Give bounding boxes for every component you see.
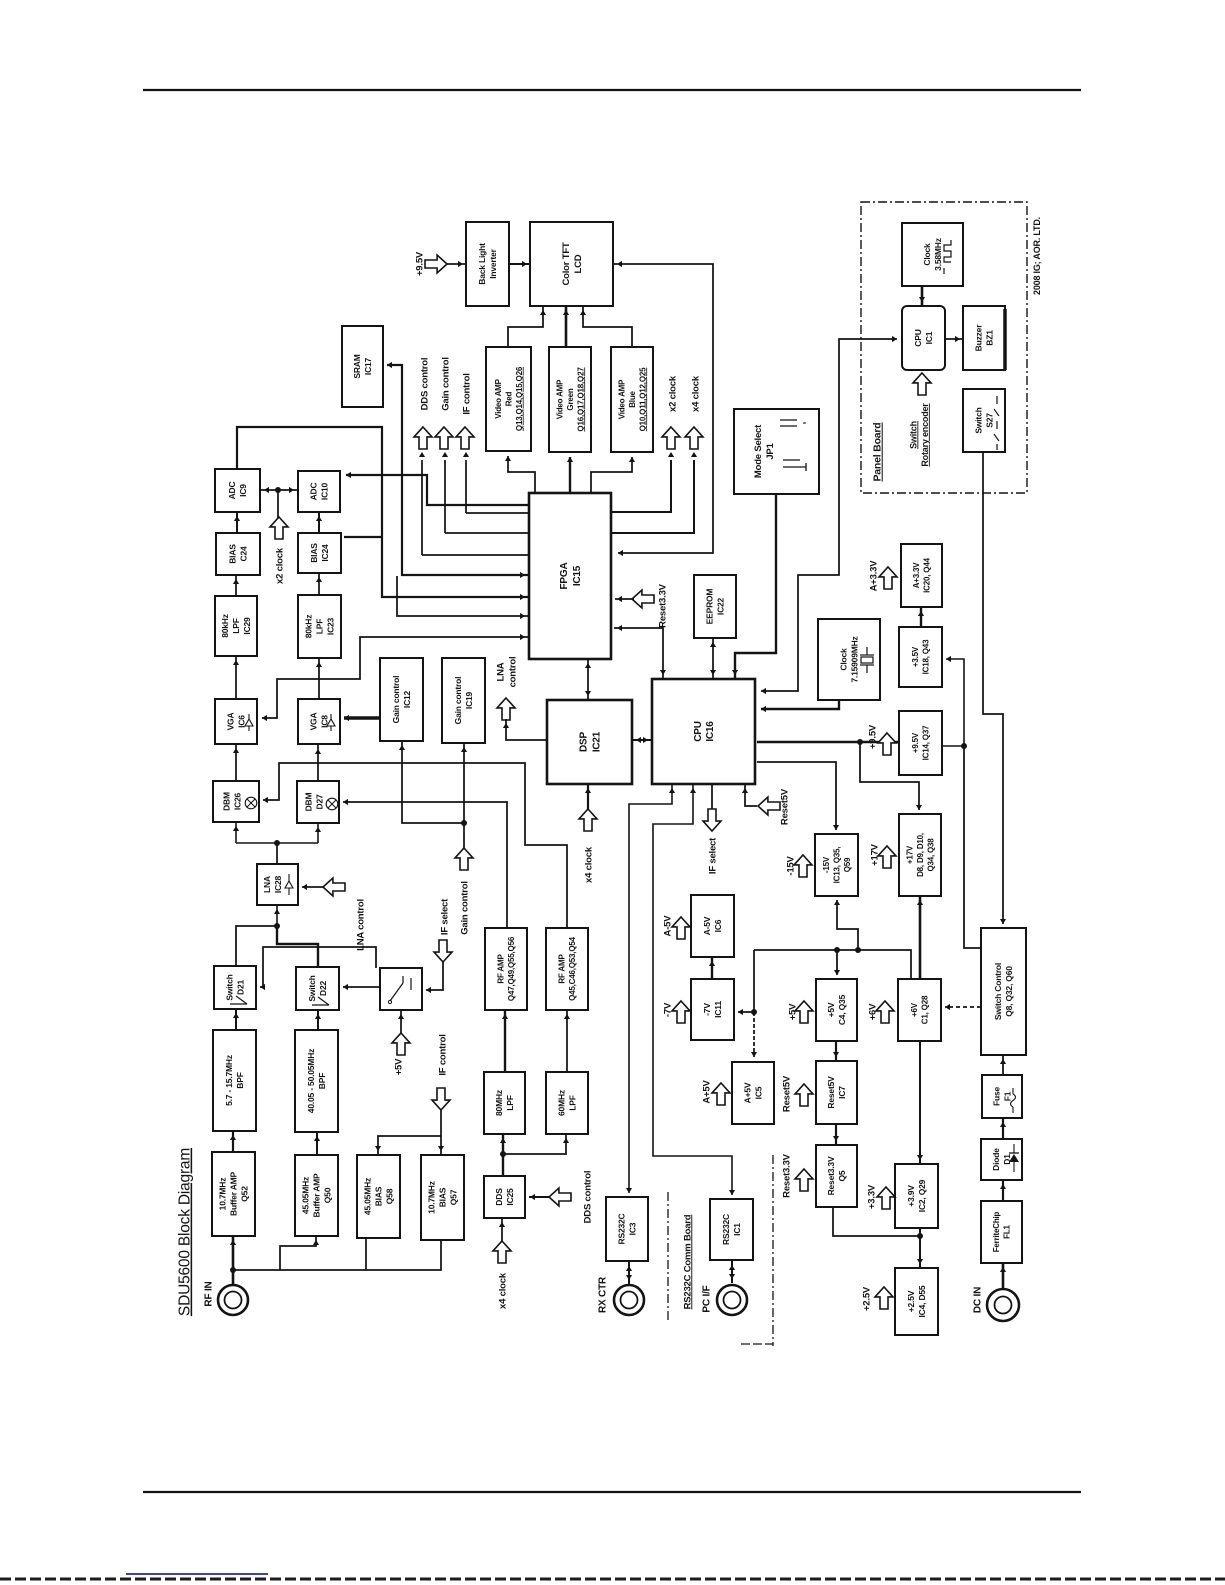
- connector PC I/F: [717, 1285, 747, 1315]
- arrowhead x4 into DDS: [499, 1222, 505, 1227]
- bias Q58: [357, 1155, 400, 1238]
- arrowhead reset33: [617, 596, 622, 602]
- svg-text:SDU5600 Block Diagram: SDU5600 Block Diagram: [177, 1148, 194, 1316]
- wire switch ctl to D22: [343, 986, 380, 988]
- wire RF IN to buffer amp Q52: [232, 1236, 235, 1284]
- open arrow switch to CPU: [913, 373, 931, 395]
- svg-text:CPU: CPU: [693, 721, 704, 742]
- label DDS control dds: [582, 1171, 593, 1224]
- open arrow DDS control: [549, 1188, 571, 1206]
- wire DSP to LNA control: [506, 719, 547, 740]
- wire to -7V: [738, 1011, 754, 1013]
- wire ADC9 bus: [237, 427, 529, 597]
- +9.5V IC14 Q37: [899, 711, 942, 775]
- wire CPU 9.5V bus: [757, 741, 899, 744]
- label RF IN: [204, 1281, 215, 1306]
- label Gain control lower: [459, 881, 470, 935]
- arrowheads into DBM bottoms: [233, 826, 239, 831]
- wire Gain control: [445, 532, 529, 534]
- wire diode to fuse: [1002, 1118, 1004, 1139]
- mode select JP1: [734, 409, 819, 494]
- gain control IC19: [442, 658, 485, 743]
- arrowhead fuse swctl: [1000, 1059, 1006, 1064]
- RS232C IC1: [710, 1199, 753, 1260]
- svg-text:Q58: Q58: [385, 1188, 395, 1204]
- wire IF control branch to Q58: [378, 1136, 441, 1155]
- wire LNA to DBM junction: [276, 843, 278, 864]
- svg-text:VGA: VGA: [226, 713, 236, 731]
- wire EEPROM to CPU: [712, 638, 714, 679]
- buzzer BZ1: [963, 306, 1005, 370]
- svg-text:IF select: IF select: [439, 898, 450, 935]
- LPF 60MHz: [546, 1072, 588, 1134]
- open arrow Gain control top: [435, 427, 453, 449]
- svg-text:IC12: IC12: [402, 690, 412, 708]
- arrowhead into 80M LPF: [500, 1138, 506, 1143]
- wire junction to DBM IC26: [235, 822, 237, 843]
- label 2008 IG AOR LTD: [1032, 217, 1042, 295]
- arrowhead into LCD left: [522, 261, 527, 267]
- junction 3.3V rail: [917, 1233, 923, 1239]
- svg-text:IC18, Q43: IC18, Q43: [922, 639, 931, 674]
- wire Q52 to BPF1: [232, 1131, 234, 1152]
- open arrow IF control: [432, 1088, 450, 1110]
- svg-text:BPF: BPF: [235, 1072, 245, 1088]
- open arrow +2.5V: [875, 1287, 893, 1309]
- svg-text:LPF: LPF: [505, 1095, 515, 1110]
- wire junction to DBM D27: [317, 823, 319, 843]
- +2.5V IC4 D55: [895, 1268, 938, 1335]
- svg-text:+17V: +17V: [905, 845, 914, 864]
- svg-text:IC22: IC22: [716, 597, 726, 615]
- svg-text:ADC: ADC: [309, 483, 319, 501]
- svg-text:FL1: FL1: [1003, 1224, 1012, 1238]
- arrowhead lna ctl: [503, 723, 509, 728]
- switch D22: [296, 967, 339, 1010]
- svg-text:IC17: IC17: [363, 357, 373, 375]
- arrowhead ferrite diode: [1000, 1184, 1006, 1189]
- arrowhead into RF amp2: [564, 1014, 570, 1019]
- wire CPU to panel: [761, 339, 897, 691]
- wire BIAS C24 to ADC IC9: [236, 512, 238, 533]
- buffer amp Q50: [295, 1155, 338, 1236]
- wire DDS control: [422, 554, 529, 556]
- CPU IC16: [652, 679, 755, 784]
- svg-text:+5V: +5V: [826, 1002, 836, 1017]
- svg-text:Switch Control: Switch Control: [993, 963, 1003, 1020]
- VGA IC8: [298, 699, 340, 744]
- svg-text:Rotary encoder: Rotary encoder: [920, 403, 930, 467]
- svg-text:3.58MHz: 3.58MHz: [933, 238, 943, 271]
- wire 9.5V right rail: [943, 659, 964, 746]
- svg-text:RS232C Comm Board: RS232C Comm Board: [682, 1214, 693, 1309]
- arrowhead clock panel cpu: [919, 297, 925, 302]
- arrowhead into VGA IC6: [233, 748, 239, 753]
- open arrow IF select cpu: [703, 809, 721, 831]
- junction x2 clock: [275, 487, 281, 493]
- arrowhead into BIAS C24: [233, 579, 239, 584]
- svg-text:A-5V: A-5V: [702, 916, 712, 935]
- svg-text:IF control: IF control: [461, 373, 472, 414]
- svg-text:A-5V: A-5V: [662, 915, 673, 937]
- arrowhead into BPF1: [230, 1135, 236, 1140]
- junction DDS out: [500, 1151, 506, 1157]
- label +9.5V: [867, 724, 878, 749]
- wire IF control v: [465, 460, 467, 513]
- arrowheads IC1 pcif: [729, 1265, 735, 1270]
- wire DDS control v: [421, 460, 423, 555]
- svg-text:+6V: +6V: [910, 1002, 919, 1017]
- wire FPGA to green amp: [569, 457, 571, 493]
- IF select switch: [380, 968, 422, 1010]
- wire gain branch to IC12: [402, 741, 464, 823]
- svg-text:45.05MHz: 45.05MHz: [301, 1177, 311, 1214]
- wire BPF1 to switch D21: [235, 1009, 237, 1030]
- wire 6V to 3.9V: [919, 1041, 921, 1164]
- arrowhead into LPF IC23: [316, 662, 322, 667]
- svg-text:DDS control: DDS control: [419, 358, 430, 411]
- arrowheads LCD FPGA wire: [617, 261, 622, 267]
- svg-text:Q5: Q5: [837, 1170, 847, 1181]
- arrowhead into -7V right: [738, 1009, 743, 1015]
- arrowhead into D22 right: [343, 984, 348, 990]
- arrowhead into LNA right: [302, 884, 307, 890]
- BIAS IC24: [298, 533, 341, 573]
- svg-text:7.15909MHz: 7.15909MHz: [850, 636, 860, 682]
- switch control Q8 Q32 Q60: [981, 928, 1026, 1055]
- ADC IC10: [298, 471, 340, 512]
- wire ADC9 bus branch: [344, 536, 382, 538]
- arrowhead into -15V top: [833, 825, 839, 830]
- svg-text:Switch: Switch: [908, 421, 918, 449]
- open arrow +5V power: [795, 1001, 813, 1023]
- svg-text:F1: F1: [1003, 1091, 1013, 1101]
- arrowhead into A-5V bottom: [709, 961, 715, 966]
- svg-text:x2 clock: x2 clock: [667, 375, 678, 412]
- wire 5V rail: [754, 950, 911, 979]
- svg-text:IC26: IC26: [233, 792, 243, 810]
- wire BPF2 to switch D22: [317, 1010, 319, 1030]
- svg-text:SRAM: SRAM: [352, 354, 362, 378]
- svg-text:80kHz: 80kHz: [220, 614, 230, 638]
- arrowhead into IC12: [399, 745, 405, 750]
- svg-text:IC16: IC16: [705, 721, 716, 742]
- wire -7V to A-5V: [711, 957, 713, 979]
- svg-text:x4 clock: x4 clock: [583, 846, 594, 883]
- wire swctl to 6V: [945, 1006, 981, 1008]
- label Gain control top: [440, 357, 451, 411]
- junction below LNA: [274, 923, 280, 929]
- svg-text:x2 clock: x2 clock: [274, 547, 285, 584]
- +6V C1 Q28: [898, 979, 941, 1041]
- svg-text:Buffer AMP: Buffer AMP: [229, 1171, 239, 1215]
- wire ADC10 bus: [346, 475, 529, 505]
- svg-text:x4 clock: x4 clock: [497, 1272, 508, 1309]
- arrowhead into 6V right: [945, 1004, 950, 1010]
- open arrow A-5V: [672, 917, 690, 939]
- wire IF select to box: [426, 962, 443, 990]
- svg-text:IC19: IC19: [464, 691, 474, 709]
- svg-text:VGA: VGA: [309, 713, 319, 731]
- svg-text:Reset3.3V: Reset3.3V: [781, 1153, 792, 1197]
- svg-text:DDS control: DDS control: [582, 1171, 593, 1224]
- wire branch to Q50 bottom: [280, 1236, 316, 1270]
- svg-text:BPF: BPF: [317, 1073, 327, 1089]
- open arrow Reset5V: [795, 1084, 813, 1106]
- wire reset33 bottom: [833, 1207, 920, 1236]
- svg-text:IC2, Q29: IC2, Q29: [917, 1179, 927, 1212]
- wire 5V to reset5V: [835, 1041, 837, 1061]
- FPGA IC15: [529, 493, 611, 659]
- arrowheads cpu ic3: [669, 788, 675, 793]
- svg-text:D27: D27: [315, 794, 325, 809]
- wire rail to +5V box: [836, 950, 838, 975]
- arrowhead into ADC IC9: [234, 516, 240, 521]
- arrowhead into D21: [233, 1013, 239, 1018]
- svg-text:Gain control: Gain control: [453, 677, 463, 725]
- clock 3.58MHz: [902, 223, 963, 286]
- DDS IC25: [484, 1176, 525, 1218]
- svg-text:Q34, Q38: Q34, Q38: [926, 838, 935, 872]
- bandpass filter BPF2: [295, 1030, 338, 1132]
- LPF 80MHz: [484, 1072, 525, 1134]
- svg-text:+9.5V: +9.5V: [867, 724, 878, 749]
- label x2 clock right: [667, 375, 678, 412]
- wire S27 to switch control: [983, 452, 1003, 924]
- arrowheads FPGA DSP: [585, 663, 591, 668]
- arrowhead reset5v cpu: [742, 788, 748, 793]
- arrowhead into 2.5V: [917, 1259, 923, 1264]
- svg-text:RF IN: RF IN: [204, 1281, 215, 1306]
- svg-text:Green: Green: [566, 388, 575, 410]
- open arrow -15V: [794, 855, 812, 877]
- RF AMP Q45: [546, 928, 588, 1010]
- svg-text:Video AMP: Video AMP: [555, 379, 564, 419]
- svg-text:IC1: IC1: [732, 1223, 742, 1236]
- svg-text:IC13, Q35,: IC13, Q35,: [832, 847, 841, 884]
- label +17V: [869, 843, 880, 866]
- A+5V IC5: [732, 1062, 774, 1124]
- svg-text:Switch: Switch: [974, 407, 984, 433]
- arrowhead into blue amp: [629, 457, 635, 462]
- wire DBM D27 LO: [343, 802, 507, 928]
- wire FPGA to red amp: [508, 456, 535, 493]
- wire FPGA to SRAM: [387, 365, 529, 575]
- arrowhead into reset33: [833, 1136, 839, 1141]
- wire +5V to switch box: [400, 1010, 402, 1034]
- svg-text:2008 IG; AOR. LTD.: 2008 IG; AOR. LTD.: [1032, 217, 1042, 295]
- wire green amp to LCD: [565, 306, 568, 347]
- arrowhead +5V into box: [398, 1014, 404, 1019]
- svg-text:A+3.3V: A+3.3V: [868, 560, 879, 592]
- wire FPGA w2: [397, 576, 529, 616]
- arrowhead ADC9 bus into FPGA: [520, 594, 525, 600]
- open arrow Reset5V cpu: [758, 797, 780, 815]
- svg-text:Reset5V: Reset5V: [781, 1075, 792, 1112]
- wire VGA IC6 to LPF IC29: [235, 656, 237, 699]
- svg-text:-7V: -7V: [702, 1003, 712, 1016]
- label x4 clock right: [690, 375, 701, 412]
- svg-text:BIAS: BIAS: [228, 544, 238, 564]
- svg-text:Q8, Q32, Q60: Q8, Q32, Q60: [1004, 966, 1014, 1017]
- arrowhead into LPF IC29: [233, 660, 239, 665]
- wire LPF IC29 to BIAS C24: [235, 575, 237, 596]
- arrowhead into ADC10: [346, 472, 351, 478]
- arrowhead into 17V bottom: [917, 900, 923, 905]
- svg-text:DBM: DBM: [304, 793, 314, 812]
- open arrow +3.3V: [877, 1187, 895, 1209]
- svg-text:JP1: JP1: [765, 442, 776, 459]
- open arrow +9.5V: [878, 733, 896, 755]
- A-5V IC6: [691, 895, 734, 957]
- label A+5V: [701, 1080, 712, 1104]
- A+3.3V IC20 Q44: [901, 544, 942, 607]
- open arrow -7V: [672, 1001, 690, 1023]
- arrowhead into 17V top: [916, 805, 922, 810]
- svg-text:Gain control: Gain control: [440, 357, 451, 411]
- arrowhead IF select into box: [426, 987, 431, 993]
- arrowhead into D21 right: [260, 984, 265, 990]
- label RX CTR: [598, 1276, 609, 1313]
- arrowhead into BPF2: [314, 1136, 320, 1141]
- wire 60M LPF to RF amp: [566, 1010, 568, 1072]
- video amp green: [549, 347, 591, 452]
- svg-text:Reset3.3V: Reset3.3V: [657, 583, 668, 627]
- svg-text:DSP: DSP: [579, 731, 590, 751]
- DBM IC26: [213, 781, 259, 822]
- gain control IC12: [380, 658, 423, 741]
- open arrow Reset3.3V: [632, 590, 654, 608]
- label x4 clock dds: [497, 1272, 508, 1309]
- svg-text:LNA: LNA: [262, 876, 272, 893]
- video amp red: [486, 347, 531, 451]
- wire 3.9V to 2.5V: [919, 1228, 921, 1268]
- arrowhead into VGA IC8: [315, 749, 321, 754]
- label IF control: [437, 1034, 448, 1075]
- -7V IC11: [691, 979, 734, 1040]
- junction gain net: [461, 820, 467, 826]
- svg-text:10.7MHz: 10.7MHz: [218, 1178, 228, 1211]
- junction LNA out: [274, 840, 280, 846]
- svg-text:5.7 - 15.7MHz: 5.7 - 15.7MHz: [224, 1055, 234, 1106]
- svg-text:DBM: DBM: [222, 792, 232, 811]
- label Reset3.3V: [781, 1153, 792, 1197]
- svg-text:S27: S27: [985, 413, 995, 428]
- wire gain net: [463, 743, 465, 849]
- arrowheads into bias tops: [438, 1146, 444, 1151]
- arrowheads cpu ic1: [690, 788, 696, 793]
- svg-text:Q59: Q59: [843, 857, 852, 872]
- svg-text:Inverter: Inverter: [488, 248, 498, 278]
- label LNA control dsp: [495, 657, 518, 688]
- svg-text:+2.5V: +2.5V: [861, 1286, 872, 1311]
- connector RX CTR: [614, 1285, 644, 1315]
- arrowhead into SRAM: [387, 362, 392, 368]
- bias Q57: [421, 1155, 464, 1240]
- arrowhead into reset5v: [833, 1052, 839, 1057]
- svg-text:Switch: Switch: [307, 975, 317, 1001]
- svg-text:Q47,Q49,Q55,Q56: Q47,Q49,Q55,Q56: [507, 936, 516, 1001]
- wire ADC9 ADC10 link: [260, 489, 298, 491]
- wire rail left leg: [753, 950, 755, 1012]
- open arrow +17V: [878, 846, 896, 868]
- svg-text:-7V: -7V: [662, 1002, 673, 1017]
- svg-text:+9.5V: +9.5V: [414, 251, 425, 276]
- label +3.3V: [866, 1184, 877, 1209]
- svg-text:FPGA: FPGA: [559, 563, 570, 590]
- label +6V: [867, 1003, 878, 1020]
- svg-text:IC9: IC9: [238, 484, 248, 497]
- arrowhead into switch control: [1000, 919, 1006, 924]
- svg-text:A+5V: A+5V: [743, 1082, 753, 1103]
- wire CPU to RS232C IC1: [653, 784, 732, 1195]
- junction RF input: [230, 1267, 236, 1273]
- wire bias injection line: [233, 1240, 441, 1270]
- svg-text:D1: D1: [1002, 1154, 1012, 1165]
- ferrite chip FL1: [981, 1201, 1022, 1263]
- svg-text:LNA: LNA: [495, 662, 506, 681]
- open arrow LNA control: [323, 878, 345, 896]
- junction 9.5V bus: [857, 739, 863, 745]
- ADC IC9: [215, 469, 260, 512]
- wire 6V to 17V: [919, 896, 922, 979]
- arrowhead ctrl into VGA IC6: [262, 715, 267, 721]
- wire DDS control to DDS: [529, 1196, 549, 1198]
- svg-text:IF select: IF select: [707, 837, 718, 874]
- arrowhead into A+5V top: [751, 1052, 757, 1057]
- label A+3.3V: [868, 560, 879, 592]
- svg-text:Blue: Blue: [628, 390, 637, 407]
- label DC IN: [973, 1287, 984, 1313]
- svg-text:BIAS: BIAS: [438, 1187, 448, 1207]
- svg-text:+9.5V: +9.5V: [911, 732, 920, 753]
- DBM D27: [297, 781, 339, 823]
- svg-text:IF control: IF control: [437, 1034, 448, 1075]
- svg-text:Video AMP: Video AMP: [617, 379, 626, 419]
- svg-text:BZ1: BZ1: [985, 330, 995, 346]
- svg-text:IC3: IC3: [628, 1222, 638, 1235]
- open arrow x4 clock dsp: [579, 809, 597, 831]
- arrowhead into +5V top: [834, 970, 840, 975]
- svg-text:Reset3.3V: Reset3.3V: [826, 1156, 836, 1195]
- switch S27: [963, 389, 1005, 452]
- arrowheads ADC link: [264, 487, 269, 493]
- svg-text:Q16,Q17,Q18,Q27: Q16,Q17,Q18,Q27: [576, 367, 585, 432]
- svg-text:Reset5V: Reset5V: [826, 1076, 836, 1109]
- wire switch ctl to D21: [260, 947, 376, 987]
- bottom dashed edge line: [0, 1578, 1225, 1581]
- svg-text:IC7: IC7: [837, 1086, 847, 1099]
- wire reset33 to FPGA: [615, 598, 634, 600]
- +3.5V IC18 Q43: [899, 627, 942, 687]
- RF AMP Q47: [485, 928, 527, 1010]
- arrowhead x4 into DSP: [585, 788, 591, 793]
- RS232C comm board dashed border: [667, 1192, 669, 1322]
- svg-text:DC IN: DC IN: [973, 1287, 984, 1313]
- switch control fuse: [982, 1075, 1022, 1118]
- arrowhead into Q50 bottom: [313, 1240, 319, 1245]
- wire JP1 to CPU: [735, 494, 776, 679]
- arrowhead into buzzer: [955, 336, 960, 342]
- arrowhead into D22: [315, 1014, 321, 1019]
- svg-text:Q45,C46,Q53,Q54: Q45,C46,Q53,Q54: [568, 936, 577, 1000]
- VGA IC6: [215, 699, 257, 744]
- wire DBM D27 to VGA IC8: [317, 744, 319, 781]
- svg-text:Buffer AMP: Buffer AMP: [312, 1173, 322, 1217]
- arrowhead w2 into FPGA: [520, 613, 525, 619]
- +3.9V IC2 Q29: [895, 1164, 938, 1228]
- arrowhead into 3.9V: [917, 1155, 923, 1160]
